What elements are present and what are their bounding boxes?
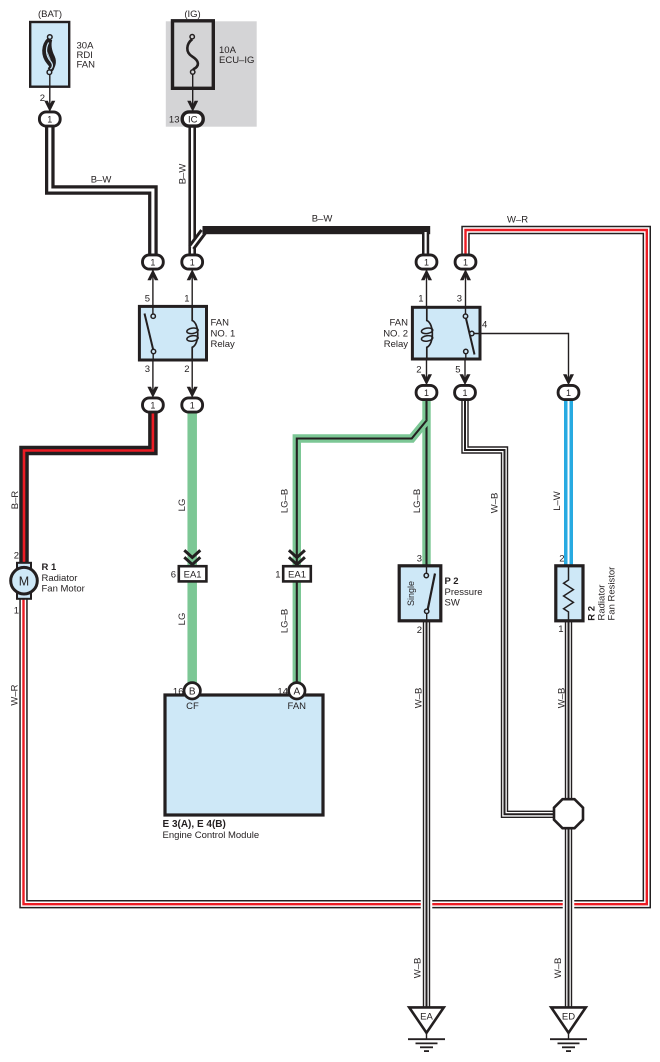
relay2 coil bbox=[421, 307, 433, 359]
svg-text:(BAT): (BAT) bbox=[38, 9, 62, 20]
relay2 bottom connectors bbox=[426, 359, 428, 380]
arrow into pin4 connector bbox=[563, 374, 574, 385]
arrow into IC connector bbox=[187, 101, 198, 112]
connector oval 1 (BAT) bbox=[39, 112, 60, 126]
wire L-W from relay2 pin4 connector to R2 pin2 bbox=[564, 398, 573, 566]
svg-text:P 2: P 2 bbox=[445, 576, 459, 587]
svg-text:1: 1 bbox=[275, 570, 280, 581]
svg-text:W–R: W–R bbox=[507, 215, 528, 226]
svg-text:L–W: L–W bbox=[552, 491, 563, 511]
svg-text:W–B: W–B bbox=[413, 958, 424, 979]
svg-text:W–B: W–B bbox=[414, 688, 425, 709]
svg-text:6: 6 bbox=[171, 570, 176, 581]
svg-text:1: 1 bbox=[150, 257, 155, 267]
relay1 FAN NO.1 box bbox=[139, 306, 206, 360]
svg-text:2: 2 bbox=[416, 365, 421, 376]
svg-text:1: 1 bbox=[566, 388, 571, 398]
wire name labels bbox=[10, 164, 568, 979]
svg-text:W–B: W–B bbox=[490, 493, 501, 514]
svg-text:CF: CF bbox=[186, 701, 199, 712]
ground ED bbox=[550, 1007, 587, 1051]
thin line relay2 pin4 to its connector bbox=[474, 334, 569, 380]
svg-text:1: 1 bbox=[558, 624, 563, 635]
thin line BAT fuse to connector bbox=[49, 75, 51, 114]
relay1 bottom connectors bbox=[152, 360, 154, 392]
svg-text:EA1: EA1 bbox=[288, 570, 306, 581]
relay2 FAN NO.2 box bbox=[412, 307, 480, 359]
svg-text:Relay: Relay bbox=[384, 339, 409, 350]
wire LG from relay1 pin2 connector to ECM terminal B bbox=[187, 411, 197, 684]
svg-text:1: 1 bbox=[418, 294, 423, 305]
fuse ECU-IG box (IG) bbox=[173, 21, 214, 89]
svg-text:1: 1 bbox=[190, 257, 195, 267]
ECM box bbox=[165, 695, 323, 815]
svg-text:1: 1 bbox=[462, 388, 467, 398]
wire B-W from BAT fuse to relay1 pin5 connector bbox=[50, 124, 153, 256]
svg-text:B–W: B–W bbox=[312, 214, 333, 225]
svg-text:Fan Motor: Fan Motor bbox=[42, 584, 85, 595]
svg-text:1: 1 bbox=[150, 400, 155, 410]
svg-text:LG–B: LG–B bbox=[280, 489, 291, 513]
relay name labels bbox=[211, 318, 409, 351]
svg-text:R 1: R 1 bbox=[42, 562, 58, 573]
svg-text:1: 1 bbox=[463, 257, 468, 267]
wire W-B from P2 pin2 to ground EA bbox=[421, 619, 433, 1008]
svg-text:13: 13 bbox=[169, 115, 180, 126]
svg-text:2: 2 bbox=[559, 554, 564, 565]
wire B-R from relay1 pin3 connector to motor pin2 bbox=[24, 411, 153, 564]
ECM terminal A bbox=[289, 683, 305, 699]
svg-text:B–W: B–W bbox=[91, 175, 112, 186]
svg-text:(IG): (IG) bbox=[184, 9, 200, 20]
wire LG-B from relay2 pin2 connector to P2 pin3 bbox=[422, 398, 430, 566]
svg-text:1: 1 bbox=[190, 400, 195, 410]
R2 resistor box bbox=[556, 566, 583, 621]
wire W-R big loop: motor pin1 down, across bottom, up right side, to relay2 pin3 connector bbox=[24, 230, 647, 904]
svg-text:4: 4 bbox=[482, 320, 487, 331]
relay1 top connectors: thin lines, arrows, ovals bbox=[152, 270, 154, 307]
svg-text:NO. 2: NO. 2 bbox=[383, 328, 408, 339]
svg-text:2: 2 bbox=[417, 625, 422, 636]
svg-text:E 3(A), E 4(B): E 3(A), E 4(B) bbox=[163, 819, 226, 830]
svg-text:16: 16 bbox=[173, 687, 184, 698]
svg-text:W–B: W–B bbox=[553, 958, 564, 979]
svg-text:LG: LG bbox=[177, 499, 188, 512]
svg-text:2: 2 bbox=[40, 93, 45, 104]
text labels top bbox=[38, 9, 254, 126]
svg-text:LG–B: LG–B bbox=[412, 489, 423, 513]
svg-text:1: 1 bbox=[14, 606, 19, 617]
svg-text:1: 1 bbox=[184, 294, 189, 305]
svg-text:LG: LG bbox=[177, 613, 188, 626]
svg-text:3: 3 bbox=[457, 294, 462, 305]
svg-text:FAN: FAN bbox=[390, 318, 409, 329]
R2 labels bbox=[558, 554, 617, 636]
fuse RDI FAN box (BAT) bbox=[30, 22, 69, 87]
svg-text:14: 14 bbox=[277, 687, 288, 698]
ECM labels bbox=[163, 687, 307, 841]
svg-text:1: 1 bbox=[424, 388, 429, 398]
svg-text:ECU–IG: ECU–IG bbox=[219, 55, 254, 66]
connector oval 1 (pin4 / L-W) bbox=[558, 385, 579, 399]
relay1 coil bbox=[186, 306, 198, 360]
wire W-B from relay2 pin5 connector to octagon junction bbox=[465, 398, 555, 814]
EA1 labels bbox=[171, 570, 281, 581]
P2 pressure switch box bbox=[399, 566, 441, 621]
svg-text:SW: SW bbox=[445, 597, 460, 608]
svg-text:ED: ED bbox=[562, 1011, 575, 1022]
svg-text:EA1: EA1 bbox=[184, 570, 202, 581]
svg-text:EA: EA bbox=[420, 1011, 433, 1022]
svg-text:Single: Single bbox=[406, 581, 416, 606]
svg-text:1: 1 bbox=[47, 114, 52, 124]
connector oval IC bbox=[182, 112, 203, 126]
svg-text:5: 5 bbox=[145, 294, 150, 305]
thin line IG fuse to IC connector bbox=[192, 74, 194, 113]
svg-text:FAN: FAN bbox=[211, 318, 230, 329]
svg-text:FAN: FAN bbox=[288, 701, 307, 712]
svg-text:3: 3 bbox=[145, 364, 150, 375]
P2 labels bbox=[406, 554, 483, 637]
svg-text:LG–B: LG–B bbox=[280, 609, 291, 633]
svg-text:1: 1 bbox=[424, 257, 429, 267]
svg-text:2: 2 bbox=[184, 364, 189, 375]
svg-text:B: B bbox=[189, 687, 196, 698]
svg-text:3: 3 bbox=[417, 554, 422, 565]
arrow into BAT connector bbox=[44, 101, 55, 112]
relay2 top connectors bbox=[426, 270, 428, 307]
svg-text:5: 5 bbox=[455, 365, 460, 376]
svg-text:Relay: Relay bbox=[211, 339, 236, 350]
relay1 switch bbox=[145, 306, 156, 360]
ECM terminal B bbox=[184, 683, 200, 699]
svg-text:W–R: W–R bbox=[10, 684, 21, 705]
wire B-W from IC connector down to relay1 pin1 connector bbox=[188, 124, 196, 256]
EA1 connector (LG wire) chevrons and box bbox=[179, 550, 207, 581]
svg-text:2: 2 bbox=[14, 551, 19, 562]
motor labels bbox=[14, 551, 85, 617]
octagon junction bbox=[554, 799, 583, 828]
svg-text:A: A bbox=[293, 687, 300, 698]
svg-text:M: M bbox=[19, 575, 29, 589]
motor R1 bbox=[11, 563, 38, 599]
svg-text:NO. 1: NO. 1 bbox=[211, 328, 236, 339]
relay pin number labels bbox=[145, 294, 488, 376]
IG junction block gray background bbox=[166, 21, 257, 126]
svg-text:Engine Control Module: Engine Control Module bbox=[163, 830, 260, 841]
svg-text:B–R: B–R bbox=[10, 491, 21, 510]
svg-text:IC: IC bbox=[188, 115, 198, 126]
wire W-B from R2 pin1 through octagon junction to ground ED bbox=[563, 619, 575, 1008]
svg-text:W–B: W–B bbox=[557, 688, 568, 709]
svg-text:FAN: FAN bbox=[77, 60, 96, 71]
EA1 connector (LG-B wire) chevrons and box bbox=[283, 550, 311, 581]
svg-text:Radiator: Radiator bbox=[42, 573, 78, 584]
svg-text:Fan Resistor: Fan Resistor bbox=[607, 567, 618, 621]
svg-text:B–W: B–W bbox=[178, 164, 189, 185]
relay2 switch with pin4 tap bbox=[463, 307, 474, 359]
wire LG-B branch from relay2 pin2 wire to ECM terminal A bbox=[297, 421, 427, 685]
wire B-W long horizontal to relay2, with diagonal tap from IC wire bbox=[192, 226, 431, 256]
ground EA bbox=[408, 1007, 445, 1051]
